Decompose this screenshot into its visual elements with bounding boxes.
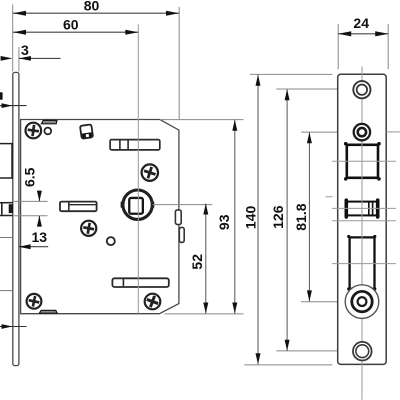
svg-text:6.5: 6.5	[21, 167, 37, 187]
leader arrow upper	[0, 103, 27, 108]
short line left of plate (upper)	[0, 237, 13, 239]
dimension 24	[338, 15, 388, 69]
svg-text:93: 93	[216, 214, 232, 230]
bottom tab	[39, 310, 57, 313]
switch icon	[80, 124, 93, 138]
dimension 13	[19, 229, 49, 249]
right edge tab upper	[175, 210, 181, 225]
dimension 140	[242, 75, 260, 365]
auxiliary bolt at left edge	[0, 203, 13, 216]
small circle next to top-left screw	[44, 128, 51, 135]
small rect cutout	[346, 200, 377, 217]
lower slot	[112, 278, 168, 287]
screw bottom-left	[27, 294, 42, 309]
ext line x18.9	[18, 47, 20, 72]
ext line y350.9 (126 bottom)	[276, 350, 353, 352]
ext line y301.8 (81.8 bottom)	[301, 301, 345, 303]
dimension 52	[189, 204, 209, 314]
ext line y119.6 (93 top)	[160, 119, 244, 121]
small circle center	[107, 237, 115, 245]
ext line y132.1 (81.8 top)	[301, 131, 353, 133]
svg-text:126: 126	[270, 205, 286, 229]
right edge tab lower	[179, 227, 184, 242]
square cutout (latch window)	[344, 142, 381, 181]
screw top-left	[26, 123, 42, 139]
leader arrow lower	[0, 324, 27, 329]
lock body outline	[21, 120, 179, 314]
small circle hole	[354, 124, 370, 140]
dimension 126	[270, 89, 290, 351]
tall rect cutout (deadbolt window)	[347, 235, 376, 291]
ext line y89 (126 top)	[276, 88, 353, 90]
centerline through body (60 ext)	[137, 24, 139, 313]
right tick y131.9	[386, 131, 400, 133]
svg-text:80: 80	[84, 0, 100, 13]
faceplate front outline	[338, 74, 387, 364]
svg-text:52: 52	[189, 254, 205, 270]
ext line y74.4 (140 top)	[250, 73, 332, 75]
latch bolt protruding at left edge	[0, 143, 13, 179]
short line left of plate (lower)	[0, 290, 14, 292]
ext line x179.2	[178, 7, 180, 119]
top tab	[41, 120, 57, 123]
top screw hole	[353, 81, 370, 98]
ext line y313.9 (52/93 bottom)	[165, 313, 244, 315]
upper slot	[110, 140, 160, 150]
svg-text:13: 13	[32, 229, 48, 245]
horizontal centerline y161.2	[332, 160, 396, 162]
horizontal centerline y208.4	[332, 207, 396, 209]
faceplate side view	[13, 72, 19, 365]
svg-text:81.8: 81.8	[293, 203, 309, 230]
line y220.7	[332, 220, 396, 222]
svg-text:3: 3	[21, 42, 29, 58]
spindle hub	[121, 190, 155, 219]
svg-text:140: 140	[242, 206, 258, 230]
screw mid-right	[142, 164, 158, 180]
dimension 81.8	[293, 132, 312, 301]
screw center	[81, 221, 96, 236]
dimension 6.5	[14, 167, 48, 226]
line y196.8 short	[326, 196, 333, 198]
vertical centerline of plate	[361, 66, 363, 399]
bottom screw hole	[353, 342, 372, 361]
svg-text:24: 24	[353, 15, 369, 31]
ext line y204.6 (hub center)	[153, 204, 213, 206]
big circled screw	[345, 285, 379, 319]
dimension 3	[1, 42, 61, 61]
dimension 80	[13, 0, 179, 16]
ext line y364.9 (140 bottom)	[244, 364, 332, 366]
ext line x12.7	[12, 5, 14, 72]
cut-off text blob at left edge	[0, 92, 3, 99]
dimension 60	[13, 16, 138, 34]
dimension 93	[216, 120, 237, 314]
left slot	[60, 202, 97, 212]
screw bottom-right	[145, 294, 161, 310]
horizontal centerline y263.6	[332, 263, 396, 265]
svg-text:60: 60	[63, 16, 79, 32]
